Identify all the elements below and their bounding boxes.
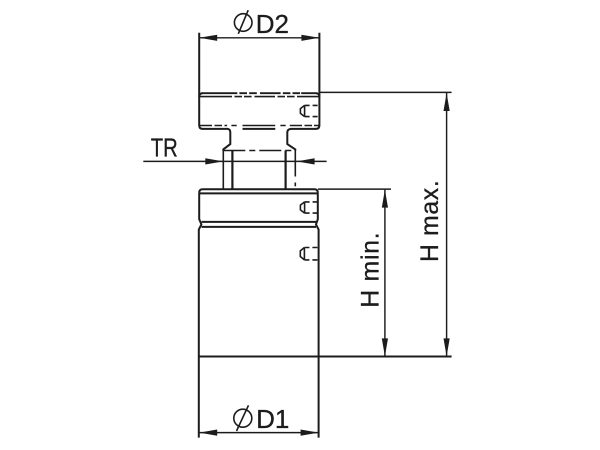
svg-text:D1: D1 bbox=[256, 404, 289, 434]
svg-text:TR: TR bbox=[151, 133, 178, 163]
svg-text:D2: D2 bbox=[256, 9, 289, 39]
svg-text:H min.: H min. bbox=[357, 232, 384, 308]
svg-text:H max.: H max. bbox=[417, 180, 444, 262]
